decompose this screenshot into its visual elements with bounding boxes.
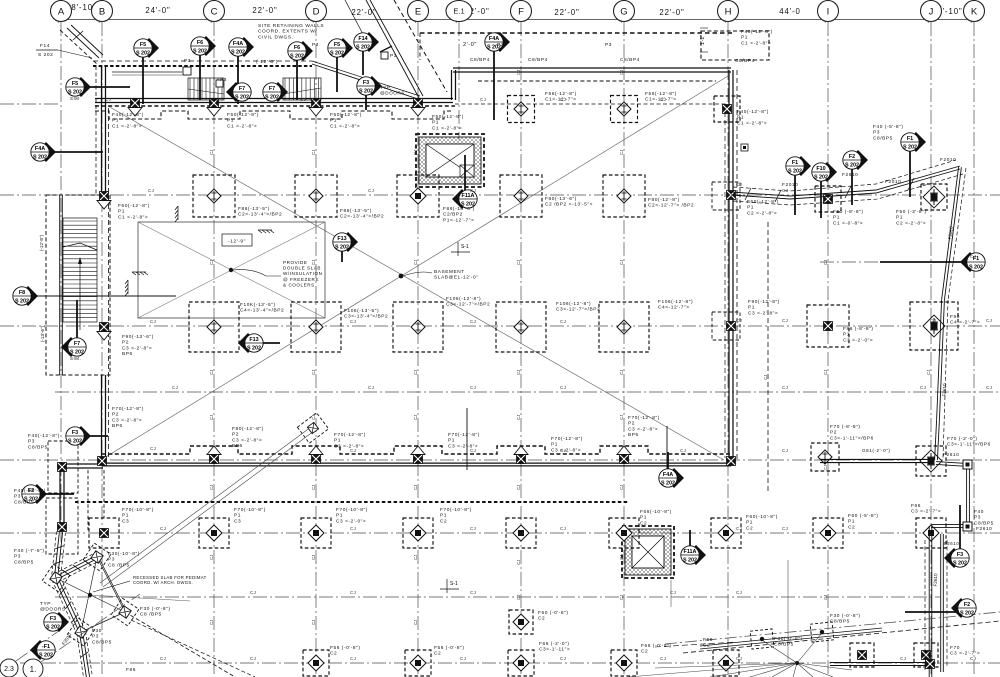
svg-text:P3: P3 (873, 130, 880, 136)
wall footing bottom x=418 (411, 446, 425, 464)
svg-text:COORD. EXTENTS W/: COORD. EXTENTS W/ (258, 29, 317, 35)
svg-text:F90: F90 (950, 314, 960, 320)
svg-text:C2 <-2'-0">: C2 <-2'-0"> (896, 220, 926, 226)
svg-text:J: J (929, 6, 934, 17)
svg-text:CJ: CJ (986, 318, 992, 323)
elevator pit top (416, 134, 484, 187)
footing F80 F (500, 175, 542, 217)
label F66 (911, 503, 941, 515)
left jog wall below corner (46, 441, 103, 554)
svg-text:CJ: CJ (930, 318, 936, 323)
svg-text:F86(-13'-5"): F86(-13'-5") (238, 206, 270, 212)
footing bottom right 2 (914, 643, 938, 667)
callout F11A pit2 (681, 530, 706, 565)
svg-text:DOUBLE SLAB: DOUBLE SLAB (283, 266, 321, 271)
svg-text:F66: F66 (911, 503, 921, 509)
label F50 (-3'-8") (896, 209, 927, 226)
svg-text:CJ: CJ (560, 385, 566, 390)
svg-text:S 202: S 202 (953, 561, 967, 567)
footing F70 I bottom (811, 443, 839, 471)
svg-text:C3<-1'-11">/BP6: C3<-1'-11">/BP6 (947, 442, 991, 448)
svg-text:CJ: CJ (470, 590, 476, 595)
svg-text:F30(-0'-8"): F30(-0'-8") (774, 636, 803, 642)
svg-text:CJ: CJ (736, 590, 742, 595)
svg-text:P3: P3 (184, 58, 191, 64)
svg-text:C2<-12'-7"> /BP2: C2<-12'-7"> /BP2 (648, 203, 694, 209)
footing F80 G (603, 175, 645, 217)
footing F90 J (910, 302, 958, 350)
svg-text:P1: P1 (848, 519, 855, 525)
svg-text:C3<-12'-7">/BP2: C3<-12'-7">/BP2 (446, 302, 490, 308)
retaining wall SE jog (931, 460, 972, 531)
svg-text:C1 <-2'-8">: C1 <-2'-8"> (432, 125, 462, 131)
svg-text:C2<-13'-4">/BP2: C2<-13'-4">/BP2 (238, 212, 282, 218)
svg-text:C2: C2 (330, 651, 337, 657)
footing F10K C (189, 302, 239, 352)
svg-text:F10: F10 (816, 166, 825, 172)
dimension text 8’-10” (71, 3, 96, 12)
svg-text:@DOORS: @DOORS (380, 90, 405, 95)
svg-text:BASEMENT: BASEMENT (434, 269, 465, 275)
svg-text:S 202: S 202 (38, 52, 53, 58)
svg-text:F106(-12'-8"): F106(-12'-8") (446, 296, 481, 302)
member to F30 box (100, 413, 329, 587)
callout F10 rw (812, 162, 837, 218)
svg-text:F70(-12'-8"): F70(-12'-8") (334, 432, 366, 438)
svg-text:CJ: CJ (920, 385, 926, 390)
svg-text:S 202: S 202 (235, 95, 249, 101)
label SITE RETAINING WALLS (258, 23, 324, 40)
label F2010 (940, 157, 956, 163)
svg-text:F2610: F2610 (933, 573, 938, 587)
wall footing notch boxes at H (712, 182, 740, 340)
callout F14 top2 (354, 32, 379, 75)
callout F4A left (31, 142, 103, 162)
svg-text:C4<-12'-7">: C4<-12'-7"> (658, 305, 690, 311)
footing F56 G (611, 96, 638, 123)
svg-text:CJ: CJ (150, 446, 156, 451)
svg-text:C1 <-2'-8">: C1 <-2'-8"> (737, 120, 767, 126)
svg-text:F60 (-5'-8"): F60 (-5'-8") (848, 513, 879, 519)
grid bubble E.1 (446, 1, 472, 22)
callout F13 mid (333, 232, 358, 262)
grid bubble K (964, 1, 985, 22)
svg-text:CJ: CJ (250, 590, 256, 595)
svg-text:CJ: CJ (350, 590, 356, 595)
svg-text:C2 /BP2 <-13'-5">: C2 /BP2 <-13'-5"> (545, 202, 593, 208)
svg-text:CJ: CJ (986, 385, 992, 390)
footing F10K G (599, 302, 649, 352)
callout F3 doors (357, 76, 382, 110)
callout F4A right (485, 32, 510, 120)
label 2'-0" (463, 42, 477, 48)
grid line y=460 (0, 459, 1000, 461)
svg-text:C2: C2 (703, 643, 710, 649)
callout F7 b (263, 82, 288, 102)
svg-text:C3<-1'-11">/BP6: C3<-1'-11">/BP6 (830, 435, 874, 441)
diagonal grid line 1 (41, 594, 140, 662)
label F70(-10'-8") (440, 507, 472, 524)
footing F70 F row5 (506, 518, 536, 548)
svg-text:F13: F13 (337, 236, 346, 242)
svg-text:P3: P3 (605, 42, 612, 48)
svg-text:BP6: BP6 (232, 443, 243, 449)
svg-text:CJ: CJ (560, 97, 566, 102)
svg-text:F60(-10'-8"): F60(-10'-8") (746, 514, 778, 520)
right wall (725, 70, 737, 461)
svg-text:CJ: CJ (460, 656, 466, 661)
svg-text:E: E (415, 6, 421, 17)
F14 keynote left (36, 43, 92, 58)
svg-text:CJ: CJ (413, 485, 418, 490)
svg-text:F30 (-0'-8"): F30 (-0'-8") (830, 613, 861, 619)
svg-text:F70(-12'-8"): F70(-12'-8") (112, 406, 144, 412)
grid line y=326 (0, 325, 1000, 327)
callout F1 pediment (30, 640, 55, 660)
footing F56 bottom x=726 (713, 650, 739, 676)
svg-text:S 202: S 202 (68, 439, 82, 445)
svg-text:24'-0": 24'-0" (145, 6, 170, 15)
svg-text:P2: P2 (232, 432, 239, 438)
svg-text:C2/BP2: C2/BP2 (443, 212, 463, 218)
svg-text:F6: F6 (197, 40, 203, 46)
svg-text:CJ: CJ (560, 319, 566, 324)
svg-text:F2610: F2610 (842, 172, 858, 178)
svg-text:CJ: CJ (736, 318, 742, 323)
label C8/BP4 (470, 57, 490, 63)
label F66 (703, 637, 713, 649)
svg-text:CJ: CJ (470, 319, 476, 324)
svg-text:F2610: F2610 (944, 541, 959, 546)
svg-text:C2: C2 (746, 525, 753, 531)
svg-text:F50(-12'-8"): F50(-12'-8") (432, 114, 464, 120)
svg-text:(-13'-6"): (-13'-6") (40, 325, 45, 342)
footing F50 single (509, 610, 533, 634)
svg-text:S 202: S 202 (68, 90, 82, 96)
svg-text:P3: P3 (28, 439, 35, 445)
svg-text:C8/BP5: C8/BP5 (14, 559, 34, 565)
bottom right grade beam (830, 663, 932, 666)
label F40(-12'-8") (737, 109, 769, 126)
svg-text:F6: F6 (294, 45, 300, 51)
svg-text:CJ: CJ (619, 370, 624, 375)
svg-text:C8/BP5: C8/BP5 (830, 619, 850, 625)
svg-text:C8/BP5: C8/BP5 (28, 444, 48, 450)
svg-text:C2: C2 (538, 616, 545, 622)
svg-text:F5: F5 (140, 42, 146, 48)
jog footing 2 (58, 523, 67, 532)
label F56 (-0'-8") (330, 645, 361, 657)
svg-text:CJ: CJ (619, 150, 624, 155)
grid line H (727, 22, 729, 677)
svg-text:P1: P1 (432, 120, 439, 126)
footing F86 I (807, 305, 849, 347)
svg-text:S 202: S 202 (359, 89, 373, 95)
svg-text:CJ: CJ (413, 150, 418, 155)
footing wall SE (926, 660, 935, 669)
svg-text:CJ: CJ (150, 319, 156, 324)
label F50 (-0'-8") (538, 610, 569, 622)
rotated CJ marks (209, 70, 931, 625)
callout F4A bottom (659, 452, 684, 488)
svg-text:CJ: CJ (782, 448, 788, 453)
svg-text:CJ: CJ (311, 555, 316, 560)
svg-text:(-12'-8"): (-12'-8") (256, 59, 278, 65)
svg-text:CJ: CJ (516, 370, 521, 375)
label F2610 (976, 526, 992, 532)
svg-text:SIM: SIM (70, 96, 79, 101)
label F90 (950, 314, 980, 326)
svg-text:F90(-12'-8"): F90(-12'-8") (748, 299, 780, 305)
svg-text:CJ: CJ (368, 385, 374, 390)
svg-text:CJ: CJ (413, 370, 418, 375)
grid line y=262 (820, 261, 972, 263)
grid bubble H (718, 1, 739, 22)
top stair run 1 (188, 78, 224, 100)
svg-text:CJ: CJ (470, 448, 476, 453)
label F70 (-8'-8") (830, 424, 874, 441)
callout F2 right (905, 598, 976, 618)
svg-text:F70(-12'-8"): F70(-12'-8") (628, 415, 660, 421)
svg-text:22'-0": 22'-0" (659, 8, 684, 17)
label F106(-12'-8") (556, 301, 600, 313)
label F86(-13'-5") (340, 208, 384, 220)
svg-text:P1: P1 (440, 513, 447, 519)
svg-text:S 202: S 202 (960, 611, 974, 617)
label F2610 (943, 452, 959, 458)
svg-text:F1: F1 (792, 160, 798, 166)
svg-text:P1: P1 (896, 215, 903, 221)
svg-text:SITE RETAINING WALLS: SITE RETAINING WALLS (258, 23, 324, 29)
jog footing 1 (58, 463, 67, 472)
svg-text:C1 <-2'-8">: C1 <-2'-8"> (227, 123, 257, 129)
retaining wall F2610 twin verticals (925, 526, 959, 677)
dimension text 22’-0” (252, 6, 277, 15)
svg-text:P3: P3 (974, 515, 981, 521)
svg-text:P1: P1 (737, 115, 744, 121)
dashed footing box above H (701, 31, 769, 60)
svg-text:CJ: CJ (311, 620, 316, 625)
svg-text:P1: P1 (448, 438, 455, 444)
top wall heavy dashed (93, 61, 312, 66)
svg-text:F3: F3 (957, 552, 963, 558)
footing G81 J (916, 446, 946, 476)
svg-text:C8/BP5: C8/BP5 (14, 499, 34, 505)
svg-text:CJ: CJ (311, 415, 316, 420)
grid bubble 2.3 (0, 659, 18, 677)
svg-text:F86(-13'-5"): F86(-13'-5") (340, 208, 372, 214)
svg-text:C3 <-2'-7">: C3 <-2'-7"> (911, 509, 941, 515)
grid line E.1 (458, 22, 460, 140)
svg-text:CJ: CJ (823, 260, 828, 265)
callout F1 rw2 (901, 132, 926, 197)
grid line y=392 (55, 391, 1000, 393)
svg-text:S 202: S 202 (969, 265, 983, 271)
svg-text:BP6: BP6 (628, 432, 639, 438)
grid line B (101, 22, 103, 677)
svg-text:C3<-1'-11">: C3<-1'-11"> (539, 647, 570, 653)
svg-text:CJ: CJ (209, 370, 214, 375)
svg-text:C2<-13'-4">/BP2: C2<-13'-4">/BP2 (340, 214, 384, 220)
svg-text:CJ: CJ (619, 595, 624, 600)
svg-text:CJ: CJ (311, 485, 316, 490)
wall footing bottom x=316 (309, 446, 323, 464)
svg-text:S 202: S 202 (46, 625, 60, 631)
label F50(-12'-8") (432, 114, 464, 131)
footing F10K D (291, 302, 341, 352)
svg-text:C3: C3 (234, 518, 241, 524)
svg-text:S 202: S 202 (335, 245, 349, 251)
grid line C (213, 22, 215, 677)
label F70(-12'-8") (334, 432, 366, 449)
grid line y=104 (0, 103, 60, 105)
svg-text:CJ: CJ (782, 385, 788, 390)
callout F3 right (944, 505, 969, 568)
svg-text:S 202: S 202 (15, 299, 29, 305)
grid bubble G (614, 1, 635, 22)
dimension text 22’-0” (659, 8, 684, 17)
footing row5 x=828 (813, 518, 843, 548)
label P3 (605, 42, 612, 48)
svg-text:C3 <-2'-0">: C3 <-2'-0"> (843, 337, 873, 343)
footing F10K F (496, 302, 546, 352)
label F80(-12'-8") (648, 197, 694, 209)
svg-text:CJ: CJ (516, 595, 521, 600)
grid line F (520, 22, 522, 677)
grid line I (827, 22, 829, 677)
svg-text:CJ: CJ (823, 595, 828, 600)
label F60(-12'-8") (747, 199, 779, 216)
svg-text:C3 <-2'-8">: C3 <-2'-8"> (628, 426, 658, 432)
grid line A (60, 22, 62, 545)
svg-text:P2: P2 (628, 421, 635, 427)
svg-text:F50 (-0'-8"): F50 (-0'-8") (538, 610, 569, 616)
svg-text:F14: F14 (358, 36, 367, 42)
svg-text:CJ: CJ (670, 590, 676, 595)
svg-text:C1 <-2'-8">: C1 <-2'-8"> (112, 123, 142, 129)
svg-text:P2: P2 (112, 412, 119, 418)
grid line y=533 (0, 532, 1000, 534)
svg-text:K: K (971, 6, 978, 17)
svg-text:P1: P1 (334, 438, 341, 444)
callout F3 left (66, 426, 108, 446)
svg-text:CJ: CJ (413, 415, 418, 420)
svg-text:F2610: F2610 (943, 452, 959, 458)
svg-text:A: A (58, 6, 65, 17)
svg-text:C3: C3 (122, 518, 129, 524)
north wall footing blocks (128, 99, 142, 117)
svg-text:S 202: S 202 (231, 50, 245, 56)
TYP @DOORS note (380, 85, 405, 95)
svg-text:C1 <-0'-8">: C1 <-0'-8"> (833, 220, 863, 226)
footing F50 I (815, 186, 841, 212)
svg-text:S-1: S-1 (461, 244, 469, 250)
label F70(-12'-8") (112, 406, 144, 429)
svg-text:C3<-12'-7">/BP2: C3<-12'-7">/BP2 (556, 307, 600, 313)
elevator pit bottom (622, 526, 674, 578)
svg-text:PROVIDE: PROVIDE (283, 260, 308, 265)
svg-text:CJ: CJ (736, 526, 742, 531)
dashed line x=768 (767, 222, 769, 492)
svg-text:F56 (-0'-8"): F56 (-0'-8") (330, 645, 361, 651)
svg-text:CJ: CJ (900, 656, 906, 661)
recessed slab note (93, 575, 207, 592)
svg-text:F5: F5 (334, 42, 340, 48)
grid line D (315, 22, 317, 677)
footing F70 A row5 (89, 518, 119, 548)
svg-text:CJ: CJ (680, 448, 686, 453)
svg-text:BP6: BP6 (122, 351, 133, 357)
CJ joint labels (105, 97, 992, 661)
label F70(-10'-8") (234, 507, 266, 524)
svg-text:-F1: -F1 (42, 644, 50, 650)
svg-text:F50 (-3'-8"): F50 (-3'-8") (896, 209, 927, 215)
svg-text:S 202: S 202 (193, 49, 207, 55)
svg-text:F10K(-13'-5"): F10K(-13'-5") (240, 302, 276, 308)
svg-text:C8/BP4: C8/BP4 (528, 57, 548, 63)
svg-text:F70(-10'-8"): F70(-10'-8") (440, 507, 472, 513)
label F40(-10'-8") (14, 488, 46, 505)
svg-text:F4A: F4A (489, 36, 499, 42)
wall footing bottom x=214 (207, 446, 221, 464)
svg-text:F2610: F2610 (942, 383, 947, 397)
slab diagonal D1 (108, 106, 724, 460)
label F40 (-5'-8") (873, 124, 904, 141)
svg-text:CJ: CJ (209, 485, 214, 490)
dimension text 22’-0” (554, 8, 579, 17)
label F70(-10'-8") (336, 507, 368, 524)
label F2610 (842, 172, 858, 178)
grid line y=597 (55, 596, 940, 598)
svg-text:CJ: CJ (413, 260, 418, 265)
svg-text:P1: P1 (118, 209, 125, 215)
north wall dashed crenellation (95, 111, 453, 119)
svg-text:F86 (-8'-8"): F86 (-8'-8") (843, 326, 874, 332)
svg-text:COORD. W/ ARCH. DWGS.: COORD. W/ ARCH. DWGS. (133, 580, 193, 585)
svg-text:F3: F3 (363, 80, 369, 86)
svg-text:F50(-12'-8"): F50(-12'-8") (330, 112, 362, 118)
grid line J (930, 22, 932, 677)
grid line K (973, 22, 975, 677)
svg-text:CJ: CJ (782, 526, 788, 531)
svg-text:P1: P1 (746, 520, 753, 526)
svg-text:SLAB@EL-12'-0": SLAB@EL-12'-0" (434, 275, 479, 281)
svg-text:CJ: CJ (470, 188, 476, 193)
label F80(-13'-6") (545, 196, 593, 208)
svg-text:F80(-12'-8"): F80(-12'-8") (648, 197, 680, 203)
svg-text:CJ: CJ (470, 385, 476, 390)
label F40(-12'-8") (741, 29, 773, 46)
label F86 (-8'-8") (843, 326, 874, 343)
svg-text:F66(-10'-8"): F66(-10'-8") (640, 509, 672, 515)
svg-text:E.1: E.1 (453, 7, 464, 16)
svg-text:CJ: CJ (209, 555, 214, 560)
svg-text:F30 (-0'-8"): F30 (-0'-8") (140, 606, 171, 612)
wall footing F56 H (714, 96, 740, 122)
label F80(-12'-8") (232, 426, 264, 449)
svg-text:I: I (827, 6, 830, 17)
svg-text:C8/BP4: C8/BP4 (470, 57, 490, 63)
svg-text:S 202: S 202 (330, 51, 344, 57)
svg-text:CJ: CJ (619, 555, 624, 560)
stair level text (39, 234, 44, 251)
svg-text:F40(-12'-8"): F40(-12'-8") (737, 109, 769, 115)
svg-text:F60(-12'-8"): F60(-12'-8") (118, 203, 150, 209)
inner dashed offset line below top wall (478, 80, 716, 82)
label F106(-12'-8") (658, 299, 693, 311)
svg-text:F2010: F2010 (885, 179, 901, 185)
footing F56 bottom x=624 (611, 650, 637, 676)
